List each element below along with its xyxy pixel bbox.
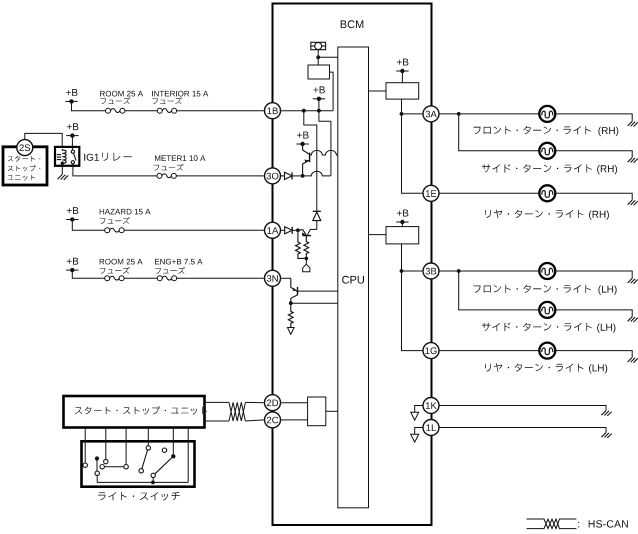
label rear RH suffix [589, 211, 609, 220]
wire unit to twist bottom [205, 420, 230, 422]
wire ROOM fuse to INTERIOR fuse [125, 110, 157, 112]
label start-stop unit [75, 406, 207, 414]
wire D3 to Q2 collector [307, 221, 317, 236]
contact S3 [139, 469, 143, 473]
label fuse katakana 2 [152, 97, 182, 104]
junction driver1 out [400, 112, 404, 116]
HS-CAN legend twisted pair [527, 519, 577, 529]
wire switch w5 [172, 429, 174, 455]
switch pivot S1 [95, 456, 99, 460]
label HAZARD 15 A [100, 209, 151, 215]
contact floating [162, 448, 166, 452]
label HS-CAN [589, 520, 628, 527]
wire CPU to driver2 [369, 234, 387, 236]
CAN transceiver box B2 [308, 397, 326, 426]
fuse ROOM 25 A (2) [105, 276, 124, 281]
wire D3 top [316, 208, 318, 211]
ground (front RH) [628, 121, 638, 126]
wire CAN box to CPU [326, 410, 338, 412]
wire lamp to ground 2 [555, 151, 632, 158]
wire node to earth pin [305, 258, 307, 264]
label ENG+B 7.5 A [155, 259, 203, 265]
label side turn light LH [482, 323, 592, 331]
wire lamp to ground 5 [555, 310, 632, 317]
wire 3N to Q3 [281, 277, 291, 279]
connector 2D [265, 395, 281, 411]
ground (side LH) [628, 317, 638, 322]
label fuse katakana 5 [100, 267, 130, 274]
power +B (driver 2) [396, 210, 408, 225]
wire B1 to 1B line [330, 72, 334, 111]
connector 3A [423, 106, 439, 122]
transistor Q2 [298, 230, 311, 236]
ground (side RH) [628, 158, 638, 163]
contact w4 [146, 446, 150, 450]
wire 1B to junctions [281, 110, 334, 112]
junction 1B-B [317, 109, 321, 113]
label start line2 [8, 165, 41, 171]
earth pin symbol (Q2) [303, 264, 310, 272]
connector 2S [17, 140, 33, 156]
wire vertical A (to diode D3) [304, 111, 317, 208]
label ROOM 25 A [100, 91, 143, 97]
connector 3N [265, 270, 281, 286]
label light switch [98, 492, 180, 501]
lever S4 [155, 458, 172, 474]
wire 1K to internal ground [415, 406, 423, 413]
wire unit to twist top [205, 401, 230, 403]
label side LH suffix [597, 324, 615, 333]
driver box B4 [386, 227, 419, 244]
label side turn light RH [482, 164, 592, 172]
wire switch w4 [147, 429, 149, 446]
wire relay contact to METER1 fuse [73, 164, 157, 176]
wire 1G to rear lamp LH [439, 350, 539, 352]
wire relay coil to ground [61, 163, 63, 174]
ground (rear LH) [628, 357, 638, 362]
contact w5 (common) [171, 454, 175, 458]
relay IG1 box [55, 147, 79, 166]
power +B (1B node) [313, 86, 325, 101]
wire +B to relay switch [71, 136, 73, 150]
resistor R2 [304, 236, 309, 259]
ground triangle (1L) [411, 434, 419, 442]
transistor Q1 [303, 144, 310, 176]
wire switch w1 [84, 429, 86, 463]
wire +B to ROOM fuse [72, 101, 109, 110]
label front turn light LH [474, 285, 591, 293]
wire 2D to CAN box [280, 402, 308, 404]
relay IG1 coil [57, 149, 66, 163]
wire switch w6 [187, 429, 189, 483]
diode D2 (1A input) [285, 227, 293, 234]
wire Q3 base to CPU [298, 290, 338, 292]
lever S1 [96, 461, 98, 472]
wire 1A to D2 [281, 229, 285, 231]
wire 2C to CAN box [280, 419, 308, 421]
power +B (ROOM/ENG fuse feed) [66, 258, 78, 273]
lamp rear turn LH [539, 343, 555, 359]
relay IG1 contact [71, 150, 76, 164]
label INTERIOR 15 A [152, 91, 208, 97]
wire lamp to ground 3 [555, 193, 632, 200]
power +B (driver 1) [396, 59, 408, 74]
lamp side turn LH [539, 302, 555, 318]
transistor Q3 [291, 278, 298, 303]
label rear turn light RH [485, 210, 583, 219]
wire 3O node to vertical B (with crossover) [303, 171, 331, 176]
junction 3A branch [457, 112, 461, 116]
wire 1L to ground [439, 428, 606, 433]
junction 1B-A [302, 109, 306, 113]
connector 1L [423, 420, 439, 436]
ground (1K line) [601, 411, 611, 416]
fuse HAZARD 15 A [105, 228, 124, 233]
junction S4 rail [151, 481, 155, 485]
label HS-CAN colon [578, 522, 579, 528]
start-stop unit box (bottom) [64, 396, 205, 428]
ground (relay coil) [57, 174, 68, 180]
label fuse katakana 4 [100, 217, 130, 224]
wire switch w3 [125, 429, 127, 465]
wire driver1 to 1E [402, 114, 424, 193]
lever S2 [104, 466, 124, 468]
power +B (IG1 relay) [66, 123, 78, 138]
wire HAZARD fuse to 1A [124, 229, 264, 231]
connector 2C [265, 412, 281, 428]
contact S2a [100, 465, 104, 469]
wire 3A to front lamp RH [439, 113, 539, 115]
wire +B to driver1 [401, 71, 403, 83]
fuse METER1 10 A [157, 173, 176, 178]
wire driver2 to 3B [402, 244, 424, 271]
contact w1 [83, 463, 87, 467]
lever S3 [142, 450, 148, 469]
wire 1E to rear lamp RH [439, 192, 539, 194]
wire +B to HAZARD fuse [72, 220, 107, 231]
wire branch to side lamp RH [459, 114, 540, 151]
lamp side turn RH [539, 143, 555, 159]
connector 1K [423, 398, 439, 414]
label front turn light RH [474, 126, 591, 134]
wire node to CPU [318, 56, 338, 58]
junction Q3 emitter node [289, 301, 293, 305]
wire lamp to ground 4 [555, 271, 632, 278]
junction internal feed node [316, 55, 320, 59]
connector 3B [423, 263, 439, 279]
label start line3 [8, 175, 36, 181]
label front RH suffix [598, 127, 618, 136]
connector 1E [423, 185, 439, 201]
wire switch w2 [105, 429, 107, 460]
wire breaker to node [317, 50, 319, 58]
connector 3O [265, 168, 281, 184]
wire CPU to driver1 [369, 90, 387, 92]
label rear turn light LH [485, 363, 583, 372]
regulator box B1 [308, 65, 330, 79]
label front LH suffix [598, 285, 616, 294]
wire D1 to Q1 node [292, 175, 303, 177]
wire driver1 to 3A [402, 99, 424, 114]
junction Q1 emitter node [301, 174, 305, 178]
wire lamp to ground 1 [555, 114, 632, 121]
contact S4 [151, 473, 155, 477]
wire vertical B (to 3O node) [319, 111, 331, 176]
wire 3B to front lamp LH [439, 270, 539, 272]
label CPU [342, 276, 364, 284]
light switch box [82, 441, 195, 486]
contact S1 [95, 471, 99, 475]
driver box B3 [386, 83, 419, 99]
wire twist to 2D [245, 401, 264, 403]
wire twist to 2C [245, 420, 264, 421]
wire Q3 node to CPU [291, 302, 338, 304]
wire METER1 fuse to 3O [176, 175, 264, 177]
label METER1 10 A [155, 155, 205, 161]
ground (1L line) [601, 433, 611, 438]
ground triangle (1K) [411, 412, 419, 420]
lamp rear turn RH [539, 185, 555, 201]
power +B (ROOM fuse feed) [65, 89, 77, 104]
CPU box [338, 47, 369, 508]
label fuse katakana 3 [154, 164, 184, 171]
contact w3 [124, 465, 128, 469]
wire driver2 to 1G [402, 271, 424, 351]
label fuse katakana 6 [155, 267, 185, 274]
power +B (HAZARD fuse feed) [66, 207, 78, 222]
label fuse katakana [100, 97, 130, 104]
connector 1A [265, 222, 281, 238]
wire S1 to rail [96, 476, 98, 483]
junction 1A node [296, 228, 300, 232]
resistor R1 [296, 230, 307, 258]
junction R1/R2 node [305, 257, 309, 261]
wire +B to driver2 [401, 222, 403, 227]
connector 1G [423, 343, 439, 359]
lamp front turn RH [539, 106, 555, 122]
wire 1L to internal ground [415, 428, 423, 435]
diode D1 (3O input) [285, 172, 293, 179]
wire +B node drop [318, 99, 320, 111]
wire branch to side lamp LH [459, 271, 540, 310]
fuse ENG+B 7.5 A [157, 276, 176, 281]
BCM box [273, 4, 432, 526]
label ROOM 25 A (2) [100, 259, 143, 265]
fuse INTERIOR 15 A [157, 108, 176, 113]
connector 1B [265, 103, 281, 119]
power +B (Q1 emitter) [296, 132, 308, 147]
wire Q1 base to CPU (with crossovers) [310, 150, 338, 155]
ground triangle (Q3) [288, 328, 295, 335]
wire 2S to IG1 relay coil [25, 133, 62, 147]
diode D3 (vertical) [313, 211, 321, 220]
wire switch bottom rail [97, 481, 188, 483]
label BCM [341, 20, 364, 28]
junction relay coil bottom [61, 162, 64, 165]
wire INTERIOR fuse to 1B [177, 110, 265, 112]
lamp front turn LH [539, 263, 555, 279]
wire lamp to ground 6 [555, 351, 632, 358]
label IG1 relay kana [102, 153, 132, 161]
wire D2 to node [292, 229, 298, 231]
ground (rear RH) [628, 200, 638, 205]
wire node to regulator box [317, 57, 319, 65]
wire +B to ROOM fuse 2 [72, 270, 107, 278]
label side RH suffix [597, 165, 617, 174]
label start line1 [8, 156, 41, 162]
start-stop unit box [3, 147, 47, 185]
wire ROOM to ENG+B fuse [124, 277, 157, 279]
wire ENG+B fuse to 3N [177, 277, 265, 279]
ground (front LH) [628, 278, 638, 283]
wire 3O to D1 [281, 175, 285, 177]
breaker/fuse symbol (BCM internal) [311, 42, 326, 49]
contact w2 [104, 459, 108, 463]
resistor R3 [288, 303, 293, 327]
twisted pair (HS-CAN) [229, 402, 245, 421]
junction 3B branch [457, 269, 461, 273]
label rear LH suffix [589, 364, 607, 373]
wire S4 to rail [152, 478, 154, 483]
wire 1K to ground [439, 406, 606, 411]
label IG1 relay pre [84, 154, 99, 161]
junction driver2 out [400, 269, 404, 273]
fuse ROOM 25 A [106, 108, 125, 113]
